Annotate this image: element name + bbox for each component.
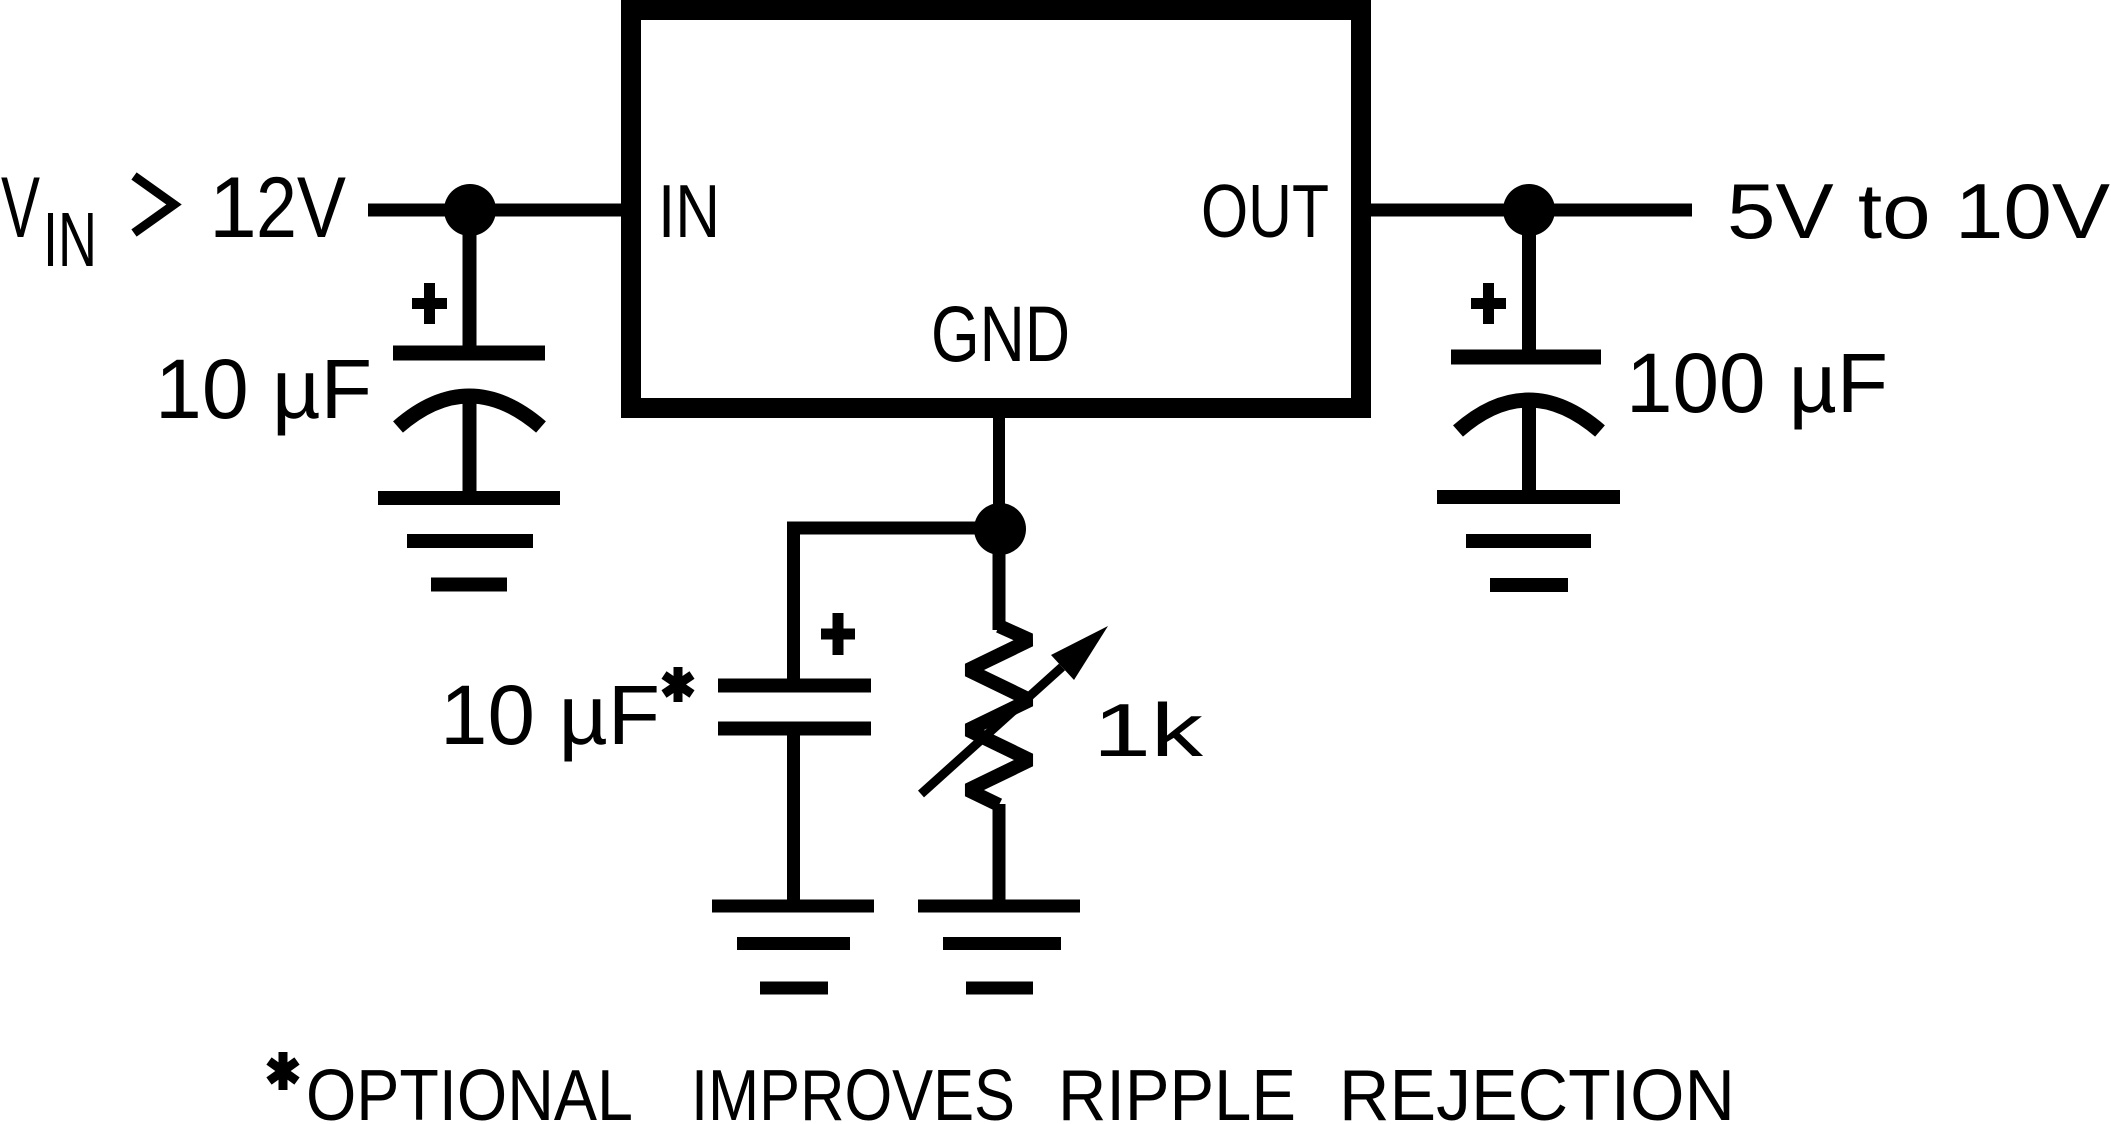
arrow head (variable resistor)	[1051, 626, 1108, 680]
wire R1 upper lead	[993, 529, 1006, 630]
wire C2 lower lead	[787, 728, 800, 906]
svg-text:RIPPLE: RIPPLE	[1058, 1056, 1296, 1124]
svg-text:IMPROVES: IMPROVES	[691, 1056, 1015, 1124]
node GND junction	[974, 503, 1026, 555]
node output junction	[1503, 184, 1555, 236]
capacitor C1 curved plate	[398, 396, 541, 427]
footnote asterisk	[269, 1052, 297, 1090]
capacitor C2 top plate	[718, 679, 871, 693]
capacitor C2 bottom plate	[718, 722, 871, 736]
capacitor C3 curved plate	[1458, 400, 1600, 431]
greater-than symbol	[134, 176, 174, 233]
svg-text:10 µF: 10 µF	[155, 342, 372, 436]
regulator box U1	[631, 10, 1361, 408]
svg-text:IN: IN	[43, 197, 97, 283]
svg-text:V: V	[1, 160, 40, 256]
wire C1 upper lead	[463, 210, 477, 353]
svg-text:100 µF: 100 µF	[1626, 336, 1888, 430]
svg-text:REJECTION: REJECTION	[1339, 1056, 1735, 1124]
capacitor C3 top plate	[1451, 350, 1601, 365]
wire branch to C2	[794, 528, 1001, 679]
node input junction	[444, 184, 496, 236]
ground C1	[378, 498, 560, 585]
svg-text:1k: 1k	[1093, 688, 1204, 772]
svg-text:OUT: OUT	[1201, 169, 1329, 253]
input label VIN	[1, 160, 97, 283]
asterisk of C2 label	[664, 667, 692, 702]
svg-text:5V to 10V: 5V to 10V	[1727, 167, 2110, 255]
capacitor C3 plus sign	[1471, 283, 1506, 324]
svg-text:1: 1	[209, 160, 257, 256]
capacitor C1 top plate	[393, 346, 545, 361]
ground C2	[712, 906, 874, 988]
ground R1	[918, 906, 1080, 988]
wire input to IN pin	[368, 204, 631, 217]
svg-text:2V: 2V	[256, 160, 346, 256]
wire C3 upper lead	[1522, 210, 1536, 357]
resistor R1 zigzag	[968, 626, 1030, 805]
svg-text:OPTIONAL: OPTIONAL	[306, 1056, 633, 1124]
ground C3	[1437, 497, 1620, 585]
capacitor C1 plus sign	[412, 283, 447, 324]
wire R1 lower lead	[993, 804, 1006, 906]
svg-text:IN: IN	[658, 169, 720, 253]
svg-text:GND: GND	[931, 289, 1070, 378]
arrow shaft (variable resistor)	[921, 667, 1062, 794]
wire C1 lower lead	[463, 392, 477, 498]
svg-text:10 µF: 10 µF	[440, 668, 660, 762]
wire OUT pin to output	[1371, 204, 1692, 217]
wire GND pin	[993, 408, 1005, 529]
capacitor C2 plus sign	[821, 613, 855, 655]
wire C3 lower lead	[1522, 396, 1536, 497]
